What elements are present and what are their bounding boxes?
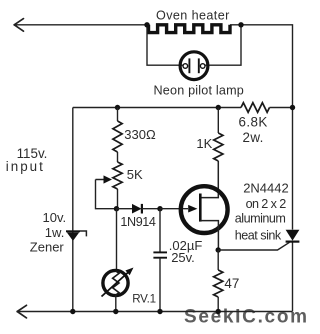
- node junction cap top: [157, 206, 162, 211]
- node junction mid rail right: [290, 105, 295, 110]
- RV1 branch wire lower: [115, 295, 117, 312]
- node junction RV1 bottom: [113, 309, 118, 314]
- node junction mid rail at 330: [115, 105, 120, 110]
- node junction cap bottom: [157, 309, 162, 314]
- rheostat RV.1: [102, 268, 134, 297]
- svg-text:47: 47: [224, 276, 239, 291]
- svg-text:RV.1: RV.1: [132, 292, 156, 305]
- wire 1K top: [217, 108, 219, 134]
- zener branch wire: [72, 108, 74, 312]
- wire 330 branch top: [117, 108, 119, 122]
- svg-text:Neon pilot lamp: Neon pilot lamp: [154, 84, 245, 98]
- node junction mid rail at 1K: [216, 105, 221, 110]
- RV1 branch wire upper: [116, 209, 118, 271]
- svg-text:330Ω: 330Ω: [124, 127, 156, 142]
- transistor 2N4442 circle: [181, 186, 228, 233]
- potentiometer 5K: [113, 162, 122, 189]
- wire top-left arrowhead: [14, 19, 23, 32]
- bottom-left arrowhead: [17, 305, 26, 318]
- svg-text:1K: 1K: [196, 136, 212, 151]
- node junction 47 bottom: [216, 309, 221, 314]
- node junction top right: [238, 22, 243, 27]
- resistor 6.8K: [241, 103, 270, 113]
- resistor 47: [214, 270, 223, 297]
- capacitor branch wire upper: [159, 209, 161, 252]
- svg-text:heat sink: heat sink: [235, 228, 282, 242]
- svg-text:2N4442: 2N4442: [243, 181, 289, 196]
- wire 47 branch top: [217, 250, 219, 270]
- svg-text:input: input: [6, 159, 45, 174]
- wire top rail with left arrow: [14, 25, 293, 312]
- zener diode D1 10v 1w: [66, 231, 86, 241]
- wire bottom rail: [17, 311, 293, 313]
- svg-text:1w.: 1w.: [45, 225, 65, 240]
- diode 1N914: [132, 204, 160, 214]
- pot wiper arrow: [96, 175, 113, 183]
- resistor 330ohm: [113, 121, 122, 152]
- node junction source: [216, 247, 221, 252]
- svg-text:Oven heater: Oven heater: [156, 9, 230, 23]
- svg-text:1N914: 1N914: [120, 215, 156, 229]
- diode on right rail (trigger): [286, 230, 300, 242]
- node junction top left: [144, 22, 149, 27]
- wire mid rail: [73, 107, 241, 109]
- node junction zener bottom: [70, 309, 75, 314]
- oven heater element: [149, 25, 231, 33]
- wire wiper box: [96, 180, 117, 209]
- wire drain: [200, 161, 218, 198]
- svg-text:on 2 x 2: on 2 x 2: [246, 197, 287, 211]
- wire gate of right diode: [218, 242, 289, 250]
- wire source: [200, 221, 218, 250]
- svg-text:10v.: 10v.: [43, 210, 67, 225]
- resistor 1K: [214, 133, 223, 161]
- node junction pot bottom: [114, 206, 119, 211]
- svg-text:6.8K: 6.8K: [239, 114, 268, 129]
- wire 47 branch bottom: [217, 297, 219, 312]
- svg-text:5K: 5K: [127, 167, 143, 182]
- wire diode row: [117, 208, 133, 210]
- wire between 330 and 5K: [117, 152, 119, 162]
- svg-text:2w.: 2w.: [243, 130, 264, 145]
- capacitor .02uF plates: [153, 252, 167, 257]
- svg-text:aluminum: aluminum: [235, 212, 286, 226]
- wire neon loop left: [147, 25, 184, 65]
- svg-text:SeekIC.com: SeekIC.com: [184, 307, 306, 328]
- wire gate row: [160, 208, 188, 210]
- capacitor branch wire lower: [159, 258, 161, 312]
- svg-text:Zener: Zener: [30, 240, 65, 255]
- neon pilot lamp: [180, 52, 208, 80]
- wire 5K bottom: [117, 189, 119, 209]
- gate arrowhead: [188, 205, 197, 213]
- wire neon loop right: [204, 25, 241, 65]
- transistor bar: [199, 194, 202, 222]
- svg-text:25v.: 25v.: [171, 250, 195, 265]
